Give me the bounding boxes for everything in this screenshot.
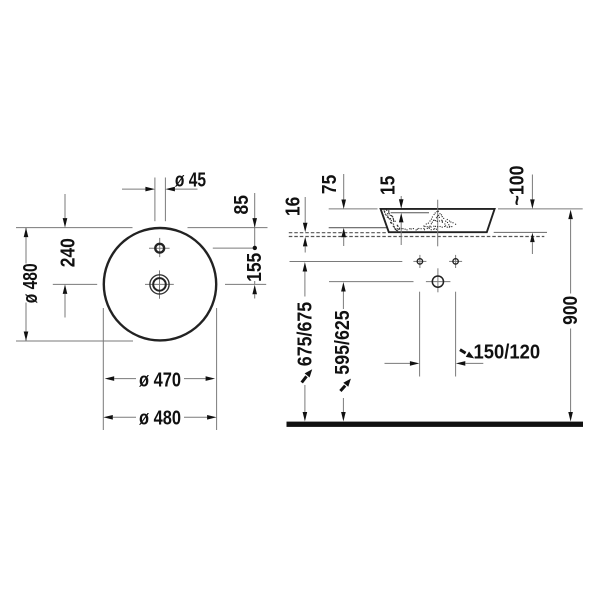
svg-text:~100: ~100 <box>506 165 528 205</box>
dimension label 675/675 (rotated) <box>295 301 317 366</box>
extension line: bottom tangent of basin circle <box>16 340 133 342</box>
dimension 15 line top <box>400 196 402 200</box>
dimension ~100 line bottom tail <box>531 242 533 254</box>
dimension label 85 (rotated) <box>231 195 254 215</box>
dimension label ~100 (rotated) <box>506 165 528 205</box>
counter reference line right (~100 target) <box>494 231 547 233</box>
dimension 75 line top <box>343 174 345 200</box>
dimension 85 arrowhead <box>252 218 257 228</box>
dimension 675/675 arrowheads <box>303 262 308 272</box>
dimension 240 bottom arrowhead <box>63 284 68 294</box>
faucet hole right circle <box>453 259 458 264</box>
drain circle (front view) <box>432 276 443 287</box>
dimension 75 arrowheads <box>341 200 346 210</box>
dimension 595/625 line <box>342 292 344 413</box>
svg-text:ø 45: ø 45 <box>175 169 206 192</box>
svg-text:ø 480: ø 480 <box>19 263 42 303</box>
dimension ø45 extension lines <box>155 178 166 222</box>
extension line: faucet hole level <box>213 247 253 249</box>
dimension 595/625 arrowheads <box>341 282 346 292</box>
dimension 240 line top tail <box>64 194 66 218</box>
faucet hole ø45 <box>155 244 164 253</box>
dimension 150/120 right line <box>465 362 483 364</box>
dimension 150/120 left line <box>385 362 411 364</box>
dimension ø45 arrowheads <box>145 187 155 192</box>
basin inner rim line <box>391 212 429 214</box>
dimension 675/675 line <box>304 272 306 413</box>
dimension 900 line <box>570 219 572 412</box>
dimension 16 line bottom tail <box>304 246 306 252</box>
drain crosshair (front view) <box>426 268 451 292</box>
svg-text:155: 155 <box>244 252 267 281</box>
svg-text:900: 900 <box>560 296 583 325</box>
faucet hole right crosshair <box>449 255 462 268</box>
svg-text:675/675: 675/675 <box>295 301 317 366</box>
extension line: basin rim top right <box>498 208 583 210</box>
dimension label ø45 <box>175 169 206 192</box>
dimension label 595/625 (rotated) <box>332 310 354 375</box>
drain outer circle <box>150 275 169 294</box>
dimension ø470 line <box>114 378 205 380</box>
leader arrow for 595/625 <box>340 386 345 391</box>
leader arrow for 675/675 <box>302 376 307 382</box>
svg-text:85: 85 <box>231 195 254 215</box>
dimension 150/120 arrowheads <box>410 361 420 366</box>
dimension 75 line bottom tail <box>343 237 345 246</box>
faucet hole left circle <box>417 259 422 264</box>
svg-text:15: 15 <box>377 175 400 195</box>
dashed countertop bottom line <box>289 236 545 238</box>
dimension label 150/120 <box>473 341 540 364</box>
extension line: top tangent of basin circle <box>16 227 268 229</box>
extension line: drain level <box>329 281 414 283</box>
svg-text:240: 240 <box>57 238 80 267</box>
dimension label 15 (rotated) <box>377 175 400 195</box>
svg-text:16: 16 <box>282 197 305 216</box>
basin profile (side view) <box>381 209 495 232</box>
floor bar <box>287 422 584 427</box>
extension line: circle right tangent vertical <box>216 308 218 430</box>
dimension ø480 vertical (left) line <box>25 228 27 341</box>
dimension 15 line bottom tail <box>400 222 402 245</box>
extension line: left faucet hole vertical <box>419 292 421 377</box>
dashed countertop top line (left of basin) <box>289 232 386 234</box>
extension line: faucet holes level <box>290 261 403 263</box>
dimension label 16 (rotated) <box>282 197 305 216</box>
extension line: right faucet hole vertical <box>455 292 457 377</box>
dimension label 155 (rotated) <box>244 252 267 281</box>
dimension 85/155 shared dot <box>253 246 257 250</box>
leader arrow for 150/120 <box>460 350 466 353</box>
basin interior dotted contour and drain mound (stipple) <box>383 209 456 231</box>
dimension 16 arrowheads <box>303 223 308 233</box>
svg-text:595/625: 595/625 <box>332 310 354 375</box>
dimension label 75 (rotated) <box>319 174 342 194</box>
faucet hole crosshair <box>149 238 170 257</box>
extension line: basin rim top left <box>329 208 378 210</box>
dimension label ø480 bottom <box>139 406 181 429</box>
dimension ~100 line top <box>531 175 533 200</box>
dimension ø480 bottom arrowheads <box>103 415 113 420</box>
dimension ø480 vertical arrowheads <box>24 228 29 238</box>
dimension label 240 (rotated) <box>57 238 80 267</box>
dimension 15 arrowheads <box>399 199 404 209</box>
dimension 900 arrowheads <box>568 210 573 220</box>
dimension label ø480 (left, rotated) <box>19 263 42 303</box>
dimension ~100 arrowheads <box>530 199 535 209</box>
dimension 240 top arrowhead <box>63 218 68 228</box>
dimension ø480 bottom line <box>113 416 207 418</box>
basin centerline <box>437 200 439 247</box>
svg-text:150/120: 150/120 <box>473 341 540 364</box>
dimension 16 line top <box>304 197 306 223</box>
drain inner circle <box>153 278 166 291</box>
basin outer circle ø480 <box>104 228 216 340</box>
dimension 85/155 shared line <box>254 193 256 299</box>
svg-text:ø 480: ø 480 <box>139 406 181 429</box>
dimension label ø470 <box>139 368 181 391</box>
dimension 240 line bottom tail <box>64 294 66 318</box>
drain crosshair <box>145 270 174 298</box>
extension line: drain level left <box>53 283 97 285</box>
dimension label 900 (rotated) <box>560 296 583 325</box>
dimension 155 bottom arrowhead <box>252 285 257 295</box>
dimension ø45 arrow lines <box>122 188 198 190</box>
svg-text:75: 75 <box>319 174 342 194</box>
extension line: drain level right <box>225 283 266 285</box>
counter top line left (75 reference) <box>329 227 387 229</box>
svg-text:ø 470: ø 470 <box>139 368 181 391</box>
faucet hole left crosshair <box>413 255 426 268</box>
dimension ø470 arrowheads <box>105 376 115 381</box>
extension line: circle left tangent vertical <box>102 308 104 430</box>
